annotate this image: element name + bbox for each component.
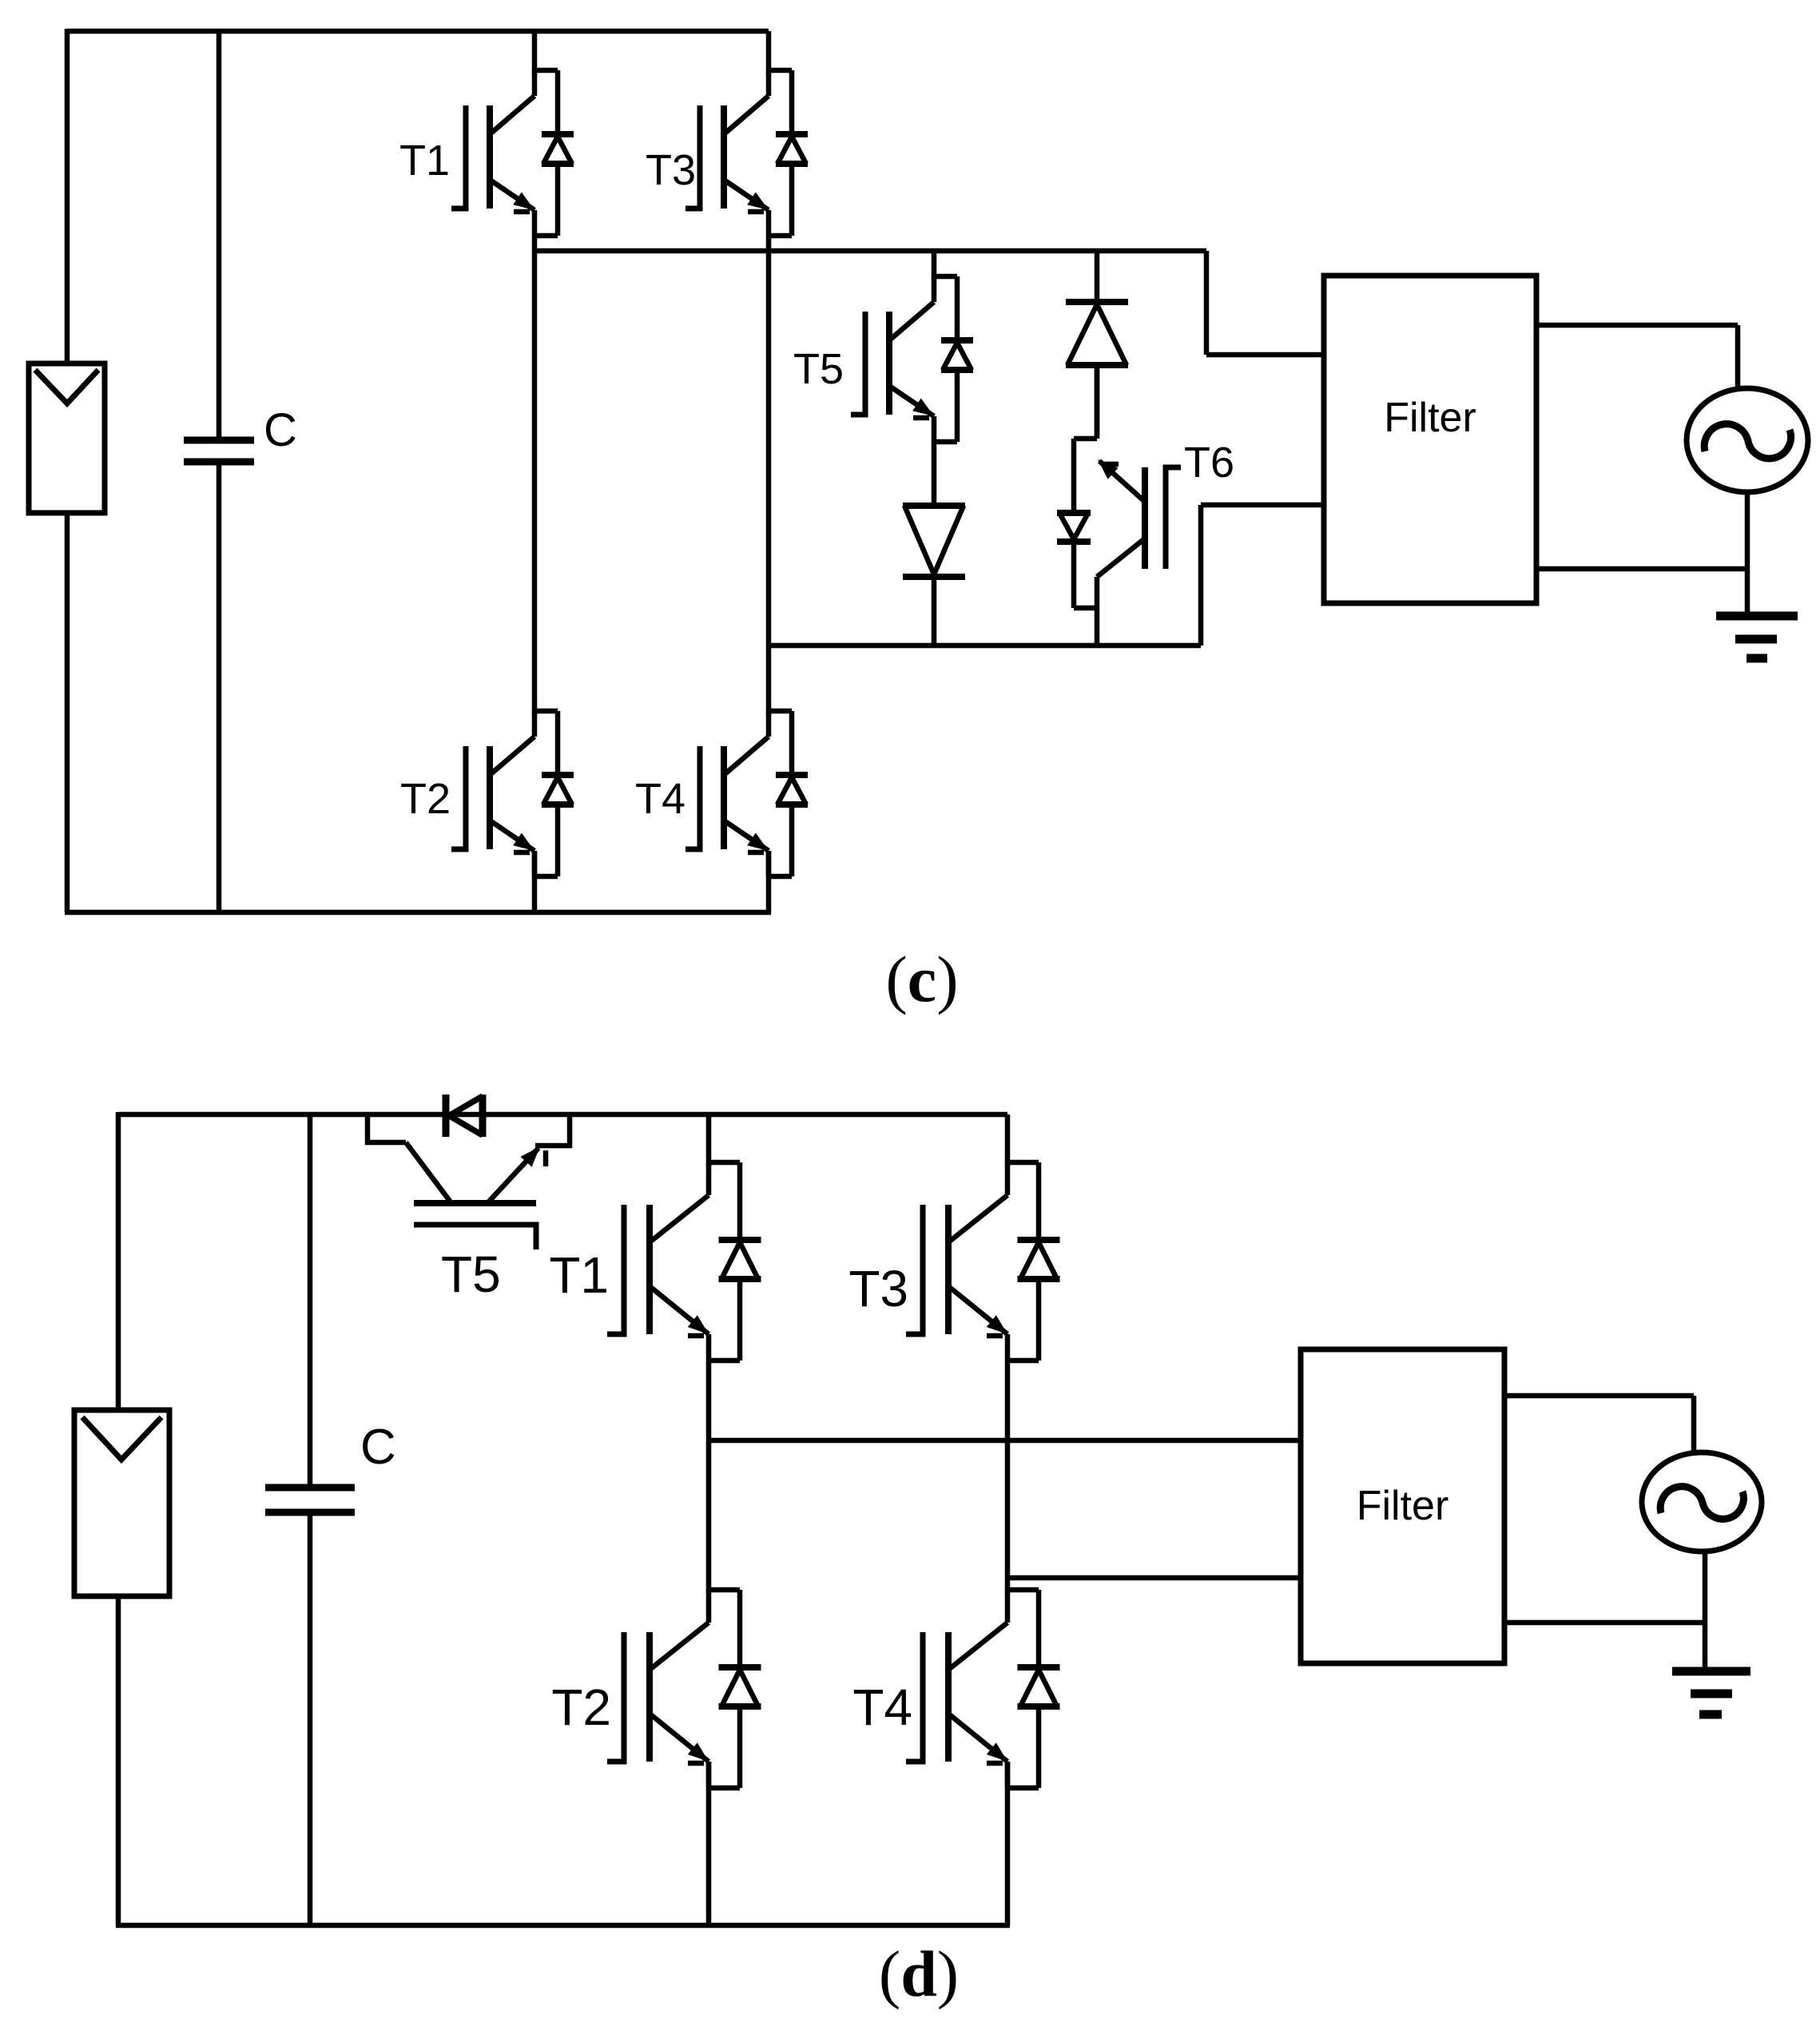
svg-text:T4: T4 [635,775,685,823]
AC grid source (d) [1642,1452,1762,1551]
wire capacitor branch lower (c) [217,462,222,912]
wire capacitor branch upper (c) [217,31,222,440]
IGBT T1 (c) [451,70,574,236]
wire T3-T4 leg (c) [766,236,772,715]
wire T4 emitter to bottom rail (d) [1005,1762,1011,1925]
wire phase A step down (c) [1204,251,1210,355]
label T5 (d) [441,1245,501,1303]
wire left DC bus upper (c) [65,29,70,366]
svg-text:T4: T4 [852,1678,912,1736]
wire phase A to filter (c) [1206,352,1324,358]
wire phase B step up (c) [1198,505,1204,646]
wire phase A rail (c) [534,248,1206,254]
svg-text:T5: T5 [441,1245,501,1303]
wire phase B rail (d) [1007,1575,1301,1581]
label Filter (c) [1384,395,1476,441]
IGBT T4 (d) [906,1590,1060,1788]
ground (d) [1672,1671,1750,1714]
svg-text:Filter: Filter [1384,395,1476,441]
wire T5 emitter link (c) [932,442,937,506]
wire T6 branch upper (c) [1095,251,1100,302]
filter box (c) [1324,276,1536,603]
wire top rail (d) [118,1112,1007,1118]
filter box (d) [1301,1349,1504,1663]
svg-text:T2: T2 [400,775,451,823]
label C (c) [264,404,297,456]
label T2 (d) [551,1678,611,1736]
wire left DC bus upper (d) [116,1112,121,1412]
wire bottom rail (d) [116,1923,1010,1929]
svg-text:(c): (c) [885,943,958,1015]
svg-text:T3: T3 [646,146,696,194]
wire T1-T2 leg (c) [532,236,538,715]
wire T4 emitter to bottom rail (c) [766,851,772,912]
svg-text:T5: T5 [793,345,844,393]
wire T2 emitter to bottom rail (c) [532,851,538,912]
wire source to ground (d) [1703,1551,1708,1669]
svg-text:(d): (d) [879,1937,959,2010]
wire T3 leg (c) [766,31,772,74]
svg-text:C: C [264,404,297,456]
wire source drop (d) [1691,1396,1697,1456]
series diode of T5 branch (c) [903,506,965,646]
wire T1-T2 leg (d) [706,1361,712,1594]
IGBT T1 (d) [607,1162,761,1361]
PV panel (c) [29,364,105,513]
IGBT T5 (c) [851,276,973,442]
label T2 (c) [400,775,451,823]
label T3 (d) [848,1260,908,1317]
ground (c) [1716,616,1798,658]
svg-text:T3: T3 [848,1260,908,1317]
label T5 (c) [793,345,844,393]
capacitor C (c) [184,440,254,462]
wire bottom rail (c) [65,910,771,916]
IGBT T3 (d) [906,1162,1060,1361]
wire T5 branch upper (c) [932,251,937,280]
IGBT T2 (d) [607,1590,761,1788]
IGBT T3 (c) [685,70,808,236]
label T4 (c) [635,775,685,823]
svg-text:T1: T1 [399,137,450,185]
IGBT T6 (c) mirrored [1057,365,1181,646]
svg-text:T6: T6 [1184,439,1234,487]
wire capacitor branch lower (d) [308,1512,313,1925]
series diode on rail (d) [446,1094,483,1137]
capacitor C (d) [265,1488,355,1512]
wire T1 leg (d) [706,1114,712,1166]
wire filter to source top (d) [1504,1393,1694,1399]
wire filter to source top (c) [1536,323,1738,328]
label T1 (d) [549,1246,609,1304]
label T6 (c) [1184,439,1234,487]
wire left DC bus lower (d) [116,1595,121,1925]
wire phase B to filter (c) [1201,503,1324,508]
caption (d) [879,1937,959,2010]
svg-text:T2: T2 [551,1678,611,1736]
wire T2 emitter to bottom rail (d) [706,1762,712,1925]
IGBT T4 (c) [685,711,808,876]
IGBT T5 (d) rotated [368,1114,570,1249]
caption (c) [885,943,958,1015]
wire source drop (c) [1735,325,1741,391]
IGBT T2 (c) [451,711,574,876]
wire phase A rail (d) [709,1438,1301,1444]
series diode of T6 branch (c) [1066,302,1128,439]
svg-text:C: C [360,1420,396,1475]
wire top rail (c) [67,29,769,34]
svg-text:T1: T1 [549,1246,609,1304]
wire left DC bus lower (c) [65,511,70,912]
wire phase B rail (c) [769,643,1201,649]
wire T1 leg (c) [532,31,538,74]
label Filter (d) [1357,1483,1449,1529]
AC grid source (c) [1687,388,1808,492]
wire filter to source bottom (c) [1536,566,1747,572]
wire filter to source bottom (d) [1504,1620,1705,1626]
wire source to ground (c) [1745,492,1750,617]
label T1 (c) [399,137,450,185]
label T3 (c) [646,146,696,194]
label C (d) [360,1420,396,1475]
PV panel (d) [74,1410,169,1596]
wire capacitor branch upper (d) [308,1114,313,1488]
svg-text:Filter: Filter [1357,1483,1449,1529]
label T4 (d) [852,1678,912,1736]
wire T3 leg (d) [1005,1114,1011,1166]
wire T3-T4 leg (d) [1005,1361,1011,1594]
